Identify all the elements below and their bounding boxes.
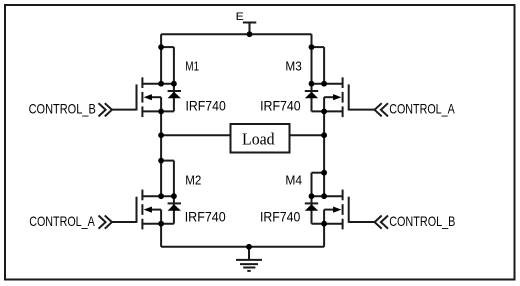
wire E terminal to top rail bbox=[249, 23, 251, 35]
body diode D-M3 cathode bar bbox=[305, 90, 318, 92]
svg-text:IRF740: IRF740 bbox=[260, 208, 301, 224]
junction dot M1 diode split bbox=[158, 44, 164, 50]
junction dot mid rail left bbox=[158, 132, 164, 138]
svg-text:E: E bbox=[236, 11, 244, 23]
junction dot M1 source stub bbox=[158, 109, 164, 115]
junction dot M3 source stub bbox=[321, 109, 327, 115]
junction dot M3 drain stub bbox=[321, 81, 327, 87]
supply terminal E bar bbox=[243, 22, 256, 24]
transistor M3 drain leg wire bbox=[323, 47, 325, 84]
load block box bbox=[231, 124, 290, 153]
transistor M2 drain leg wire bbox=[160, 135, 162, 196]
transistor M2 source leg wire bbox=[160, 224, 162, 247]
transistor M3 channel segments bbox=[342, 77, 344, 88]
junction dot M2 drain stub bbox=[158, 193, 164, 199]
wire jog to M1 body diode bbox=[161, 46, 174, 48]
transistor M4 source stub bbox=[312, 223, 343, 225]
transistor M3 gate plate bbox=[348, 84, 350, 110]
svg-text:IRF740: IRF740 bbox=[185, 208, 226, 224]
wire top rail bbox=[161, 33, 311, 35]
body diode D-M4 cathode bar bbox=[305, 202, 318, 204]
transistor M1 source stub bbox=[142, 110, 174, 112]
transistor M3 body-source wire bbox=[323, 97, 325, 111]
junction dot M2 diode split bbox=[158, 158, 164, 164]
ground symbol bars bbox=[236, 259, 262, 261]
transistor M1 body-source wire bbox=[160, 97, 162, 111]
body diode D-M3 triangle bbox=[305, 92, 318, 99]
terminal chevron CONTROL_A bottom-left bbox=[105, 216, 112, 229]
transistor M4 body lead bbox=[324, 209, 333, 211]
junction dot M1 diode/drain bbox=[171, 81, 177, 87]
transistor M4 source leg wire bbox=[323, 224, 325, 247]
transistor M2 body arrow bbox=[144, 207, 152, 213]
transistor M4 drain stub bbox=[312, 195, 343, 197]
junction dot M3 diode split bbox=[309, 44, 315, 50]
wire jog to M3 drain leg bbox=[312, 46, 325, 48]
transistor M3 gate lead wire bbox=[349, 109, 375, 111]
node E supply label bbox=[236, 11, 244, 23]
svg-text:M2: M2 bbox=[185, 174, 201, 188]
wire jog to M4 body diode bbox=[312, 172, 325, 174]
junction dot M4 diode split bbox=[321, 170, 327, 176]
svg-text:M4: M4 bbox=[285, 174, 302, 188]
transistor M2 source stub bbox=[142, 223, 174, 225]
junction dot M4 source stub bbox=[321, 221, 327, 227]
wire mid rail right (from Load) bbox=[291, 134, 325, 136]
svg-text:CONTROL_B: CONTROL_B bbox=[29, 102, 96, 117]
transistor M1 source leg wire bbox=[160, 111, 162, 135]
body diode D-M4 triangle bbox=[305, 204, 318, 211]
junction dot M4 drain stub bbox=[321, 193, 327, 199]
junction dot mid rail right bbox=[321, 132, 327, 138]
junction dot M2 source stub bbox=[158, 221, 164, 227]
transistor M3 body lead bbox=[324, 96, 333, 98]
body diode D-M2 cathode bar bbox=[168, 202, 181, 204]
svg-text:CONTROL_A: CONTROL_A bbox=[29, 214, 95, 229]
junction dot M1 drain stub bbox=[158, 81, 164, 87]
transistor M1 gate lead wire bbox=[112, 109, 137, 111]
wire bottom rail bbox=[161, 246, 324, 248]
svg-text:IRF740: IRF740 bbox=[186, 97, 227, 113]
transistor M1 body lead bbox=[152, 96, 162, 98]
transistor M1 gate plate bbox=[136, 84, 138, 110]
body diode D-M4 line bbox=[311, 173, 313, 224]
transistor M3 source leg wire bbox=[323, 111, 325, 135]
junction dot M3 diode/drain bbox=[309, 81, 315, 87]
transistor M4 channel segments bbox=[342, 190, 344, 201]
transistor M3 source stub bbox=[312, 110, 343, 112]
transistor M2 gate plate bbox=[136, 197, 138, 223]
transistor M3 drain stub bbox=[312, 83, 343, 85]
body diode D-M2 line bbox=[173, 161, 175, 224]
svg-text:M1: M1 bbox=[185, 60, 199, 74]
transistor M1 drain stub bbox=[142, 83, 174, 85]
transistor M1 body arrow bbox=[144, 94, 152, 100]
transistor M3 body arrow bbox=[333, 94, 341, 100]
transistor M1 channel segments bbox=[141, 77, 143, 88]
body diode D-M1 line bbox=[173, 47, 175, 111]
transistor M2 body lead bbox=[152, 209, 162, 211]
transistor M2 channel segments bbox=[141, 190, 143, 201]
transistor M4 drain leg wire bbox=[323, 135, 325, 196]
transistor M1 drain leg wire bbox=[160, 34, 162, 83]
wire mid rail left (to Load) bbox=[161, 134, 229, 136]
transistor M2 gate lead wire bbox=[112, 221, 137, 223]
terminal chevron CONTROL_A top-right bbox=[375, 103, 382, 116]
terminal chevron CONTROL_B top-left bbox=[105, 103, 112, 116]
transistor M4 gate lead wire bbox=[349, 221, 375, 223]
svg-text:CONTROL_B: CONTROL_B bbox=[389, 214, 455, 229]
svg-text:IRF740: IRF740 bbox=[260, 97, 301, 113]
body diode D-M2 triangle bbox=[168, 204, 181, 211]
body diode D-M3 line (rail drop) bbox=[311, 34, 313, 111]
svg-text:CONTROL_A: CONTROL_A bbox=[389, 102, 455, 117]
ground wire bbox=[248, 247, 250, 260]
body diode D-M1 triangle bbox=[168, 92, 181, 99]
junction dot M2 diode/drain bbox=[171, 193, 177, 199]
transistor M2 drain stub bbox=[142, 195, 174, 197]
transistor M4 body-source wire bbox=[323, 210, 325, 224]
junction dot E / top rail bbox=[247, 31, 253, 37]
svg-text:M3: M3 bbox=[285, 60, 301, 74]
transistor M4 body arrow bbox=[333, 207, 341, 213]
wire jog to M2 body diode bbox=[161, 160, 174, 162]
terminal chevron CONTROL_B bottom-right bbox=[375, 216, 382, 229]
junction dot M4 diode/drain bbox=[309, 193, 315, 199]
transistor M4 gate plate bbox=[348, 197, 350, 223]
transistor M2 body-source wire bbox=[160, 210, 162, 224]
junction dot ground / bottom rail bbox=[246, 244, 252, 250]
svg-text:Load: Load bbox=[242, 130, 275, 149]
body diode D-M1 cathode bar bbox=[168, 90, 181, 92]
